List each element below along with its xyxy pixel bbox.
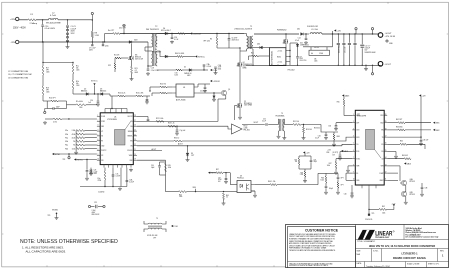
U1 bottom pin 0 stub bbox=[103, 165, 105, 168]
wire R1c to U1 bbox=[86, 104, 97, 106]
svg-text:Q4: Q4 bbox=[243, 62, 245, 64]
resistor R21 module gate bbox=[252, 55, 259, 57]
wire ladder row R5a bbox=[85, 130, 97, 132]
wire fb cluster top bbox=[299, 155, 311, 157]
wire L2 to TP junction bbox=[58, 19, 92, 21]
svg-text:1206: 1206 bbox=[46, 71, 50, 73]
svg-text:PGD: PGD bbox=[356, 151, 359, 153]
wire u2 pin12 wire bbox=[387, 179, 398, 181]
U2 left pin 9 stub bbox=[352, 172, 355, 174]
wire pin89 join bbox=[345, 173, 347, 180]
resistor R22 gate bbox=[156, 120, 164, 122]
resistor R20 40.2k bbox=[118, 95, 125, 97]
svg-text:SYNC: SYNC bbox=[101, 121, 105, 123]
junction elec t bbox=[362, 33, 363, 34]
title divider 1 bbox=[356, 225, 449, 240]
net INTVCC aux bbox=[195, 55, 205, 58]
svg-text:C36: C36 bbox=[328, 126, 331, 128]
svg-text:SFL4020-4R7ME: SFL4020-4R7ME bbox=[46, 23, 61, 25]
wire Q2 source down bbox=[239, 108, 241, 116]
svg-text:OPT: OPT bbox=[153, 237, 156, 239]
svg-text:PGOOD: PGOOD bbox=[365, 219, 373, 221]
wire q4a base drop bbox=[399, 166, 401, 181]
wire T1 sec to rail bbox=[254, 33, 299, 35]
label R45 bbox=[226, 195, 229, 199]
svg-text:RT: RT bbox=[101, 141, 103, 143]
svg-text:REV.: REV. bbox=[440, 250, 445, 252]
wire ladder left join R3a bbox=[75, 134, 77, 138]
junction module stub a bbox=[289, 50, 290, 51]
U1 top pin 1 stub bbox=[110, 109, 112, 113]
wire divider col a bbox=[42, 42, 44, 66]
resistor R18 OPT bbox=[42, 86, 44, 95]
svg-text:0.1uF: 0.1uF bbox=[218, 179, 222, 181]
wire t3 sec top bbox=[284, 124, 293, 126]
title block left vertical bbox=[355, 225, 357, 268]
U1 left pin 8 stub bbox=[97, 150, 100, 152]
wire D6 right bbox=[168, 56, 177, 58]
wire D9 down bbox=[187, 156, 189, 159]
svg-text:2.49k: 2.49k bbox=[72, 130, 76, 132]
wire fb cluster bottom bbox=[299, 168, 311, 170]
capacitor C41 bbox=[325, 187, 328, 188]
wire r63 right bbox=[405, 129, 431, 131]
wire RS right riser bbox=[332, 34, 334, 47]
capacitor C24 bbox=[171, 38, 174, 39]
wire RS top wire bbox=[303, 46, 333, 48]
svg-text:Q2: Q2 bbox=[244, 101, 246, 103]
wire divider col c bbox=[42, 95, 44, 101]
label Q2 bbox=[244, 101, 252, 107]
wire c30 bot bbox=[160, 174, 166, 176]
junction Cb bbox=[228, 33, 229, 34]
wire c38 down bbox=[421, 189, 423, 193]
wire r34 to u4 bbox=[167, 92, 172, 94]
wire module top link bbox=[289, 43, 291, 51]
ground resistor ladder bbox=[74, 151, 78, 154]
svg-text:1206: 1206 bbox=[76, 69, 80, 71]
svg-text:10k: 10k bbox=[295, 161, 298, 163]
resistor R17 OPT bbox=[42, 66, 44, 75]
ground C37 bbox=[338, 157, 342, 160]
svg-text:NOTE: UNLESS OTHERWISE SPECIFI: NOTE: UNLESS OTHERWISE SPECIFIED bbox=[20, 239, 118, 245]
svg-text:ACPL-W346: ACPL-W346 bbox=[176, 98, 185, 101]
diode D6 bbox=[165, 55, 168, 58]
Linear Technology LT logo bbox=[358, 230, 395, 240]
wire T1 sec bottom drop bbox=[252, 49, 254, 65]
wire R1b gnd stub bbox=[45, 118, 53, 120]
junction fb drop bbox=[149, 90, 150, 91]
svg-text:TP5: TP5 bbox=[372, 213, 375, 215]
wire r62 right bbox=[405, 122, 431, 124]
test point TP out- bbox=[371, 73, 373, 75]
wire fb cl left down bbox=[298, 165, 300, 169]
border tick top 2 bbox=[103, 2, 105, 4]
resistor R42 10k bbox=[298, 158, 300, 165]
capacitor C21 u4 bbox=[204, 88, 207, 89]
svg-text:76.8k: 76.8k bbox=[98, 180, 102, 182]
svg-text:CSP: CSP bbox=[356, 122, 359, 124]
wire opto pin top bbox=[230, 184, 237, 186]
capacitor C39 bbox=[325, 135, 328, 136]
wire c16 up bbox=[146, 96, 148, 99]
svg-text:14: 14 bbox=[385, 157, 387, 159]
wire R1b to U1 bbox=[62, 118, 97, 120]
svg-text:R3a: R3a bbox=[65, 137, 68, 139]
svg-text:C2 COMM/ATTR/LYGM: C2 COMM/ATTR/LYGM bbox=[8, 70, 28, 73]
junction c28 bbox=[225, 172, 226, 173]
wire Cb drop bbox=[228, 34, 230, 39]
wire outcap 0 top bbox=[337, 34, 339, 43]
resistor R57 100k bbox=[335, 162, 337, 169]
svg-text:SS: SS bbox=[101, 136, 103, 138]
wire r24 left bbox=[150, 86, 160, 88]
svg-text:49.9k: 49.9k bbox=[72, 134, 76, 136]
diode D2 bbox=[86, 93, 89, 96]
svg-text:4.7uH: 4.7uH bbox=[50, 15, 56, 17]
svg-text:16: 16 bbox=[385, 143, 387, 145]
junction bus R1g bbox=[104, 186, 105, 187]
label comm notes bbox=[8, 70, 32, 79]
test point TP vout a bbox=[355, 28, 357, 30]
transformer T2 secondary upper bbox=[156, 34, 157, 48]
U2 left pin 7 stub bbox=[352, 158, 355, 160]
svg-text:Rb: Rb bbox=[210, 39, 212, 41]
label R17 OPT bbox=[46, 68, 50, 74]
svg-text:2.5Amp: 2.5Amp bbox=[30, 22, 38, 25]
resistor R1d pll bbox=[51, 100, 58, 102]
wire TG riser to Q5 bbox=[217, 99, 219, 121]
U1 right pin 21 stub bbox=[133, 150, 137, 152]
svg-text:19: 19 bbox=[134, 159, 136, 161]
wire r40 right bbox=[277, 184, 318, 186]
junction C14 node bbox=[305, 33, 306, 34]
wire Rb drop bbox=[216, 34, 218, 38]
svg-text:C18: C18 bbox=[151, 68, 154, 70]
svg-text:SS: SS bbox=[356, 173, 358, 175]
wire elec cap bot bbox=[361, 48, 363, 65]
wire u2 pin1 wire bbox=[344, 115, 352, 117]
svg-text:40k: 40k bbox=[76, 83, 79, 85]
resistor R1g 76.8k bbox=[104, 171, 106, 180]
svg-text:AOUT: AOUT bbox=[152, 148, 157, 151]
label R1a 40k bbox=[76, 66, 80, 72]
wire d12 up bbox=[213, 93, 215, 96]
wire T2 sec top to D4 bbox=[157, 33, 165, 35]
wire fb lower row c bbox=[224, 191, 238, 193]
svg-text:1uF: 1uF bbox=[90, 171, 93, 173]
capacitor C9A output bbox=[337, 43, 340, 44]
label Q4 bbox=[243, 62, 252, 69]
wire D9 drop bbox=[187, 146, 189, 153]
wire r46 top bbox=[326, 172, 338, 174]
wire u2 pin14 wire bbox=[387, 165, 400, 167]
U1 bottom pin 2 stub bbox=[112, 165, 114, 168]
svg-text:U3: U3 bbox=[240, 175, 242, 177]
svg-text:C38: C38 bbox=[425, 188, 428, 190]
wire ladder row R4a bbox=[85, 144, 97, 146]
U2 right pin 20 stub bbox=[384, 115, 387, 117]
label C26 bbox=[94, 170, 98, 176]
diode D12 bbox=[213, 96, 215, 98]
wire pgood drop bbox=[368, 188, 370, 209]
ground C21 bbox=[203, 89, 207, 92]
wire triangle out bbox=[242, 124, 265, 126]
wire fb riser right bbox=[317, 173, 319, 184]
wire r64 right bbox=[407, 143, 425, 145]
U2 right pin 14 stub bbox=[384, 158, 387, 160]
wire R8 bottom bbox=[91, 38, 93, 43]
svg-text:10: 10 bbox=[226, 197, 228, 199]
ground C1g bbox=[175, 132, 179, 135]
label R44 bbox=[179, 194, 183, 198]
wire clamp loop top b bbox=[120, 33, 152, 35]
U1 exposed pad bbox=[115, 130, 126, 146]
svg-text:R62 OPT: R62 OPT bbox=[396, 119, 402, 121]
wire tp vout b stem bbox=[372, 30, 374, 34]
capacitor C9C output bbox=[348, 43, 351, 44]
U1 top pin 0 stub bbox=[104, 109, 106, 113]
wire secondary ground rail bbox=[246, 64, 381, 66]
wire pll bot a bbox=[47, 108, 53, 110]
buffer A2 SOUT triangle bbox=[232, 124, 243, 134]
wire u3 out lower stub bbox=[251, 190, 255, 192]
wire divider to pll loop bbox=[43, 100, 47, 102]
svg-text:R37: R37 bbox=[216, 169, 219, 171]
wire TP4 stem bbox=[68, 154, 70, 157]
capacitor C13 47pF bbox=[53, 107, 54, 110]
svg-text:10: 10 bbox=[353, 179, 355, 181]
wire Q2 gate bbox=[235, 105, 238, 107]
svg-text:DEMO CIRCUIT 1629A: DEMO CIRCUIT 1629A bbox=[393, 256, 426, 260]
test point TP2 bbox=[123, 24, 126, 27]
terminal +VOUT bbox=[378, 33, 383, 38]
wire u2 pin17 wire bbox=[387, 143, 400, 145]
svg-text:R46: R46 bbox=[321, 178, 324, 180]
wire TP1 stem bbox=[91, 15, 93, 20]
svg-text:0.1uF: 0.1uF bbox=[94, 171, 98, 173]
svg-text:VIN: VIN bbox=[130, 141, 132, 143]
transistor Q5 driver bbox=[221, 90, 226, 95]
junction module stub b bbox=[289, 56, 290, 57]
label RS below bbox=[314, 59, 318, 63]
U2 right pin 19 stub bbox=[384, 122, 387, 124]
wire u4 out v bbox=[197, 84, 199, 87]
wire Rb to bottom bbox=[216, 45, 218, 48]
border tick left C bbox=[2, 167, 4, 169]
wire fb cl mid bbox=[304, 169, 306, 171]
svg-text:R24 750: R24 750 bbox=[160, 83, 166, 85]
U1 left pin 7 stub bbox=[97, 145, 100, 147]
ground RC9 bbox=[130, 78, 134, 81]
U1 right pin 25 stub bbox=[133, 130, 137, 132]
svg-text:FZT653: FZT653 bbox=[410, 181, 415, 183]
wire T1 pri top stub bbox=[246, 34, 248, 37]
svg-text:BSS126: BSS126 bbox=[135, 56, 141, 58]
svg-text:1206: 1206 bbox=[105, 46, 109, 48]
svg-text:18: 18 bbox=[385, 128, 387, 130]
wire divider2 col a bbox=[72, 62, 74, 64]
wire r24 to u4 bbox=[167, 86, 172, 88]
svg-text:0.47uF: 0.47uF bbox=[116, 175, 121, 177]
transformer T1 primary bbox=[247, 36, 249, 49]
svg-text:M1 FDMS86202: M1 FDMS86202 bbox=[271, 51, 273, 65]
junction vfb bbox=[195, 191, 196, 192]
svg-text:100kHz: 100kHz bbox=[98, 192, 104, 194]
svg-text:40.2k: 40.2k bbox=[72, 137, 76, 139]
resistor R34 bbox=[160, 92, 167, 94]
wire pgood to +12V bbox=[387, 207, 394, 210]
wire tp out- stem bbox=[372, 65, 374, 72]
svg-text:600V 0.5W: 600V 0.5W bbox=[135, 58, 143, 60]
wire TP2 stem bbox=[123, 27, 125, 34]
svg-text:SENSE-: SENSE- bbox=[127, 136, 133, 138]
wire module stubs join bbox=[289, 51, 291, 62]
junction outcap 2 b bbox=[349, 65, 350, 66]
ground T3 sec bbox=[282, 137, 286, 140]
svg-text:R18: R18 bbox=[46, 88, 49, 90]
U1 left pin 4 stub bbox=[97, 130, 100, 132]
wire r47 down bbox=[337, 188, 339, 191]
wire r57 gnd bbox=[335, 169, 337, 172]
wire u2 pin9 wire bbox=[346, 179, 352, 181]
resistor R5a 2.49k bbox=[76, 130, 85, 132]
svg-text:R1d OPT: R1d OPT bbox=[49, 97, 56, 99]
U2 left pin 8 stub bbox=[352, 165, 355, 167]
svg-text:4.2: 4.2 bbox=[135, 70, 137, 72]
svg-text:+1 C3L: +1 C3L bbox=[277, 50, 282, 52]
svg-text:VIN: VIN bbox=[381, 130, 383, 132]
svg-text:28: 28 bbox=[134, 115, 136, 117]
ground C39 bbox=[324, 136, 328, 139]
wire ladder common down bbox=[75, 149, 77, 151]
resistor R60 bbox=[177, 56, 183, 58]
wire c42 down bbox=[337, 179, 339, 182]
size cell dividers bbox=[372, 249, 438, 262]
wire r45 down bbox=[223, 199, 225, 201]
svg-text:M5: M5 bbox=[135, 55, 137, 57]
wire fb row1b bbox=[110, 95, 118, 97]
U1 left pin 1 stub bbox=[97, 116, 100, 118]
svg-text:C34: C34 bbox=[318, 136, 321, 138]
svg-text:R42: R42 bbox=[294, 160, 297, 162]
wire u4 out to q5 bbox=[198, 92, 221, 94]
wire fb cl left stub bbox=[298, 156, 300, 158]
transformer T3 secondary bbox=[283, 119, 284, 131]
transformer T3 core bbox=[281, 119, 282, 131]
junction outcap 1 t bbox=[343, 33, 344, 34]
U1 top pin 4 stub bbox=[126, 109, 128, 113]
svg-text:C30: C30 bbox=[151, 165, 154, 167]
svg-text:0805: 0805 bbox=[218, 68, 222, 70]
svg-text:C10: C10 bbox=[90, 100, 93, 102]
svg-text:1.2M: 1.2M bbox=[95, 35, 100, 37]
wire M3 drain bbox=[285, 34, 287, 39]
wire ladder left join R3b bbox=[75, 138, 77, 142]
ground C28 bbox=[224, 180, 228, 183]
wire t5 tl bbox=[144, 221, 148, 224]
svg-text:R53 620: R53 620 bbox=[314, 127, 320, 129]
ground C18 bbox=[146, 72, 150, 75]
wire pll loop left bbox=[46, 101, 48, 109]
svg-text:650pF: 650pF bbox=[329, 188, 333, 190]
net COM t5 bbox=[171, 225, 178, 228]
ground C33 bbox=[419, 142, 423, 145]
wire intvcc to r37 bbox=[210, 172, 216, 174]
capacitor C26 intvcc bbox=[90, 171, 93, 172]
svg-text:PG: PG bbox=[381, 144, 383, 146]
transformer T5 bottom winding bbox=[148, 227, 162, 230]
svg-text:16SEPF1000M: 16SEPF1000M bbox=[365, 52, 376, 54]
wire C26 up bbox=[90, 168, 92, 171]
svg-text:OPT: OPT bbox=[341, 185, 344, 187]
label C34 bbox=[314, 160, 317, 164]
wire ladder left join R4b bbox=[75, 145, 77, 149]
wire c28 drop bbox=[225, 173, 227, 178]
resistor R55 bbox=[343, 99, 345, 106]
svg-text:0.1uF: 0.1uF bbox=[262, 121, 266, 123]
svg-text:PE-68386NL: PE-68386NL bbox=[276, 115, 285, 117]
resistor R45 10 bbox=[223, 193, 225, 199]
capacitor C4 input bank bbox=[66, 37, 69, 38]
svg-text:CMMR1U-02: CMMR1U-02 bbox=[300, 45, 309, 47]
svg-text:ALL CAPACITORS ARE 0603.: ALL CAPACITORS ARE 0603. bbox=[26, 249, 67, 253]
wire R19 top bbox=[303, 125, 305, 128]
wire R6 to +12VLDR bbox=[185, 33, 190, 35]
svg-text:R20 40.2k: R20 40.2k bbox=[118, 92, 125, 94]
ground C36 bbox=[334, 128, 338, 131]
wire fb cluster stem bbox=[304, 153, 306, 156]
label R46 bbox=[320, 178, 324, 182]
border tick left B bbox=[2, 100, 4, 102]
svg-text:150V - 400V: 150V - 400V bbox=[13, 27, 26, 29]
net +12V pgood flag bbox=[393, 204, 395, 206]
svg-text:R44: R44 bbox=[179, 194, 182, 196]
wire cap bank to gnd bbox=[67, 42, 69, 46]
junction intvcc c19 bbox=[86, 159, 87, 160]
capacitor C2A 0.22uF bbox=[126, 180, 129, 181]
wire opto vcc drop bbox=[229, 173, 231, 185]
U1 right pin 26 stub bbox=[133, 125, 137, 127]
wire c41 down bbox=[325, 188, 327, 191]
wire outcap 1 top bbox=[343, 34, 345, 43]
wire c21 up bbox=[204, 84, 206, 87]
ground R46 bbox=[324, 191, 328, 194]
svg-text:TG: TG bbox=[131, 121, 133, 123]
wire pgood run bbox=[369, 208, 379, 210]
resistor R1c 400k bbox=[76, 104, 86, 106]
svg-text:23: 23 bbox=[134, 139, 136, 141]
svg-text:3.16: 3.16 bbox=[175, 72, 178, 74]
label C19 bbox=[90, 170, 94, 176]
resistor R11 gate bbox=[115, 57, 121, 59]
wire c42 stub bbox=[337, 173, 339, 177]
svg-text:PLLIN: PLLIN bbox=[101, 116, 105, 118]
wire ladder row R3a bbox=[85, 137, 97, 139]
svg-text:SCALE = NONE: SCALE = NONE bbox=[407, 263, 420, 266]
wire C24 drop bbox=[171, 34, 173, 38]
capacitor C52 bbox=[266, 123, 267, 126]
svg-text:(S OPT): (S OPT) bbox=[333, 152, 339, 154]
wire C1h down bbox=[112, 176, 114, 186]
svg-text:17: 17 bbox=[385, 136, 387, 138]
svg-text:COMP: COMP bbox=[379, 173, 383, 175]
resistor R5b 49.9k bbox=[76, 133, 85, 135]
wire t3 pri bottom bbox=[278, 131, 280, 135]
label C11 value bbox=[92, 210, 101, 216]
wire R11 left drop bbox=[114, 58, 116, 63]
wire to C20 bbox=[42, 20, 44, 25]
